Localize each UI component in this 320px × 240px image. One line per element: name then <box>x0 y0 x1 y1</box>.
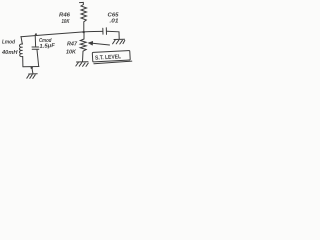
svg-text:.01: .01 <box>110 18 119 24</box>
svg-text:Lmod: Lmod <box>2 40 15 46</box>
svg-text:10K: 10K <box>62 19 71 25</box>
svg-text:R46: R46 <box>59 13 71 19</box>
svg-text:R47: R47 <box>67 41 78 47</box>
svg-text:10K: 10K <box>66 49 77 55</box>
svg-text:1.5μF: 1.5μF <box>39 43 55 50</box>
svg-text:40mH: 40mH <box>1 50 18 56</box>
